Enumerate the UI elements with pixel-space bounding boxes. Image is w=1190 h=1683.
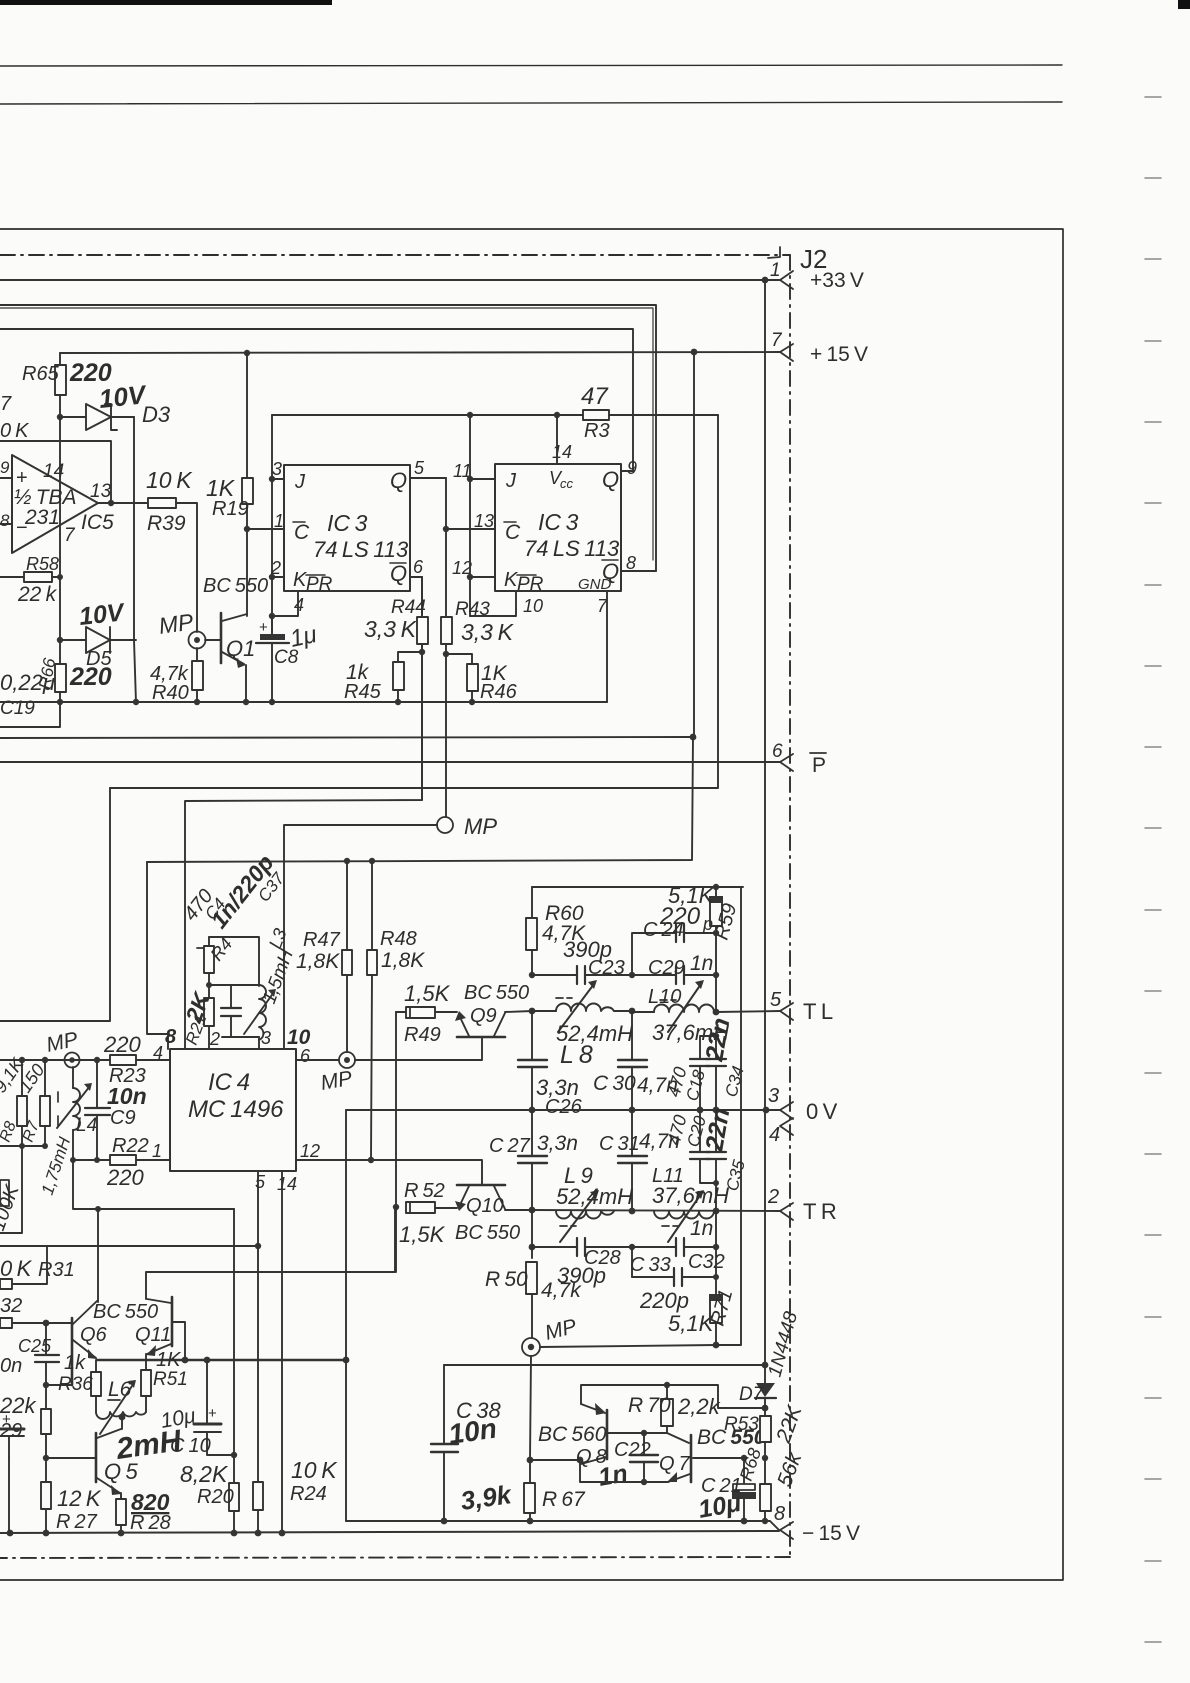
svg-text:R45: R45 <box>344 681 382 703</box>
node R48 junction y861 <box>369 858 375 864</box>
node R58 tee <box>57 574 63 580</box>
resistor R67 3,9k <box>529 1460 531 1483</box>
svg-text:Q1: Q1 <box>226 636 255 661</box>
pin 7 connector arrow <box>780 344 793 361</box>
svg-text:Q10: Q10 <box>466 1195 504 1217</box>
wire oscillator box y1021 <box>0 788 110 1021</box>
wire Q-bar bus to pin 8 of IC3b <box>0 305 656 571</box>
inductor L3 1,5mH <box>259 985 266 1040</box>
svg-text:37,6mH: 37,6mH <box>652 1183 729 1208</box>
resistor R29 22K <box>45 1385 47 1409</box>
svg-text:J: J <box>294 471 306 493</box>
svg-text:L 8: L 8 <box>560 1041 593 1069</box>
resistor R51 1k <box>145 1360 147 1370</box>
inductor L10 37,6mH <box>629 1008 636 1015</box>
pin 3 connector arrow <box>780 1102 793 1119</box>
resistor R68 56k <box>764 1458 766 1484</box>
node R47 junction y861 <box>344 858 350 864</box>
node rail junctions <box>57 699 63 705</box>
svg-text:5: 5 <box>414 458 425 478</box>
svg-text:12: 12 <box>300 1141 320 1161</box>
node D5 left <box>57 637 63 643</box>
resistor R24 10K <box>253 1482 263 1510</box>
svg-text:2: 2 <box>767 1186 779 1208</box>
svg-text:10 K: 10 K <box>146 467 193 493</box>
wire pin5 drop <box>257 1171 259 1482</box>
0V wire y1110 <box>346 1109 780 1111</box>
wire Q bus to pin 9 of IC3b <box>0 329 633 471</box>
wire x234 drop <box>233 1209 235 1455</box>
capacitor C23 390p <box>529 972 535 978</box>
svg-text:C 30: C 30 <box>593 1072 636 1095</box>
svg-text:D3: D3 <box>142 402 171 427</box>
pin 1 connector arrow <box>780 271 793 289</box>
resistor R60 4,7k <box>531 887 533 918</box>
svg-text:1n: 1n <box>690 952 713 975</box>
svg-text:10n: 10n <box>447 1413 499 1450</box>
resistor R66 220 <box>59 640 61 664</box>
resistor R23 220 <box>110 1055 136 1065</box>
svg-text:1,5K: 1,5K <box>404 981 451 1006</box>
svg-text:0 K: 0 K <box>0 420 30 442</box>
wire R65 to D3 <box>59 395 61 417</box>
transistor Q10 BC550 <box>457 1184 505 1187</box>
capacitor C28 390p <box>529 1244 536 1251</box>
resistor R19 1K <box>246 353 248 478</box>
outer schematic frame <box>0 229 1063 1580</box>
wire x692 drop to y860 <box>147 737 693 862</box>
resistor R43 3,3k <box>441 617 452 644</box>
svg-text:13: 13 <box>474 511 494 531</box>
svg-text:C22: C22 <box>614 1439 651 1461</box>
pot 100K <box>0 1146 22 1233</box>
node R4 bottom <box>206 982 212 988</box>
wire MP to x741 <box>540 1345 716 1347</box>
node C10 x234 junction <box>231 1452 237 1458</box>
node L6 centre tap <box>119 1414 126 1421</box>
svg-text:C26: C26 <box>545 1096 583 1118</box>
-15V upper wire <box>346 1521 779 1530</box>
wire pin12 y1160 <box>296 1160 482 1184</box>
svg-text:14: 14 <box>43 461 64 482</box>
svg-text:4: 4 <box>294 595 304 615</box>
resistor R47 1,8K <box>346 861 348 950</box>
svg-text:R3: R3 <box>584 420 610 442</box>
wire y1365 <box>444 1364 765 1366</box>
svg-text:100K: 100K <box>0 1181 24 1234</box>
svg-text:74 LS 113: 74 LS 113 <box>524 536 620 561</box>
svg-text:7: 7 <box>771 330 783 351</box>
svg-text:R36: R36 <box>58 1374 93 1395</box>
wire +33V vertical rail to D7 <box>764 280 766 1383</box>
svg-text:cc: cc <box>560 476 574 491</box>
svg-text:1,8K: 1,8K <box>296 950 340 973</box>
svg-text:5: 5 <box>255 1172 266 1192</box>
svg-text:6: 6 <box>300 1046 311 1066</box>
wire Q8 base net y1433 <box>641 1430 647 1436</box>
resistor R70 2,2k <box>666 1385 668 1399</box>
svg-text:2,2k: 2,2k <box>677 1394 721 1419</box>
wire +15V sub feed y860 <box>147 862 168 1049</box>
svg-text:2: 2 <box>270 558 281 578</box>
wire pin14 drop <box>281 1171 283 1533</box>
svg-text:3: 3 <box>768 1085 779 1107</box>
wire pin14 Vcc <box>556 415 558 464</box>
wire x60 D3 to D5 <box>59 417 61 640</box>
node Q7 base junctions <box>741 1455 747 1461</box>
wire pin8 Qbar <box>621 570 656 572</box>
svg-text:10μ: 10μ <box>696 1489 743 1524</box>
svg-text:Q: Q <box>602 467 619 492</box>
svg-text:C 10: C 10 <box>170 1435 211 1457</box>
wire pin5 Q <box>410 477 446 479</box>
svg-text:T L: T L <box>803 999 833 1024</box>
resistor R8 9,1K <box>17 1096 27 1126</box>
svg-text:9: 9 <box>627 458 637 478</box>
svg-text:14: 14 <box>277 1174 297 1194</box>
svg-text:R49: R49 <box>404 1024 441 1046</box>
capacitor C21 10u <box>743 1458 745 1484</box>
svg-text:Q9: Q9 <box>470 1005 497 1027</box>
svg-text:8: 8 <box>774 1503 785 1525</box>
wire op-amp -input <box>0 523 12 525</box>
node D3 left <box>57 414 63 420</box>
svg-text:3,3 K: 3,3 K <box>364 616 418 642</box>
svg-text:−: − <box>16 517 28 539</box>
right margin ticks <box>1145 97 1161 1642</box>
svg-text:R68: R68 <box>736 1446 765 1484</box>
svg-text:0 V: 0 V <box>806 1099 838 1124</box>
wire R39 to Q1 base line <box>176 503 197 632</box>
wire rail step to left edge <box>0 702 60 727</box>
svg-text:C29: C29 <box>648 957 685 979</box>
wire JK-PR supply net y415 <box>272 414 583 416</box>
wire Q-bar IC3a feed y801 <box>185 577 422 1049</box>
node Q6 base / C25 <box>43 1320 50 1327</box>
MP test point on Q feed <box>437 817 453 833</box>
transistor Q1 BC550 <box>205 639 221 641</box>
wire Q11 collector net y1272 <box>146 1207 395 1299</box>
wire pin12 <box>470 576 495 578</box>
wire D3-right drop to rail <box>134 640 136 703</box>
svg-text:BC 550: BC 550 <box>464 982 529 1004</box>
capacitor C32 1n <box>629 1244 635 1250</box>
svg-text:R43: R43 <box>455 599 490 620</box>
svg-text:1N4448: 1N4448 <box>765 1309 803 1379</box>
svg-text:1: 1 <box>274 511 284 531</box>
node y415 x470 <box>467 412 473 418</box>
svg-text:J: J <box>505 470 517 492</box>
svg-text:L3: L3 <box>265 926 291 952</box>
resistor R49 1,5k <box>396 1011 406 1013</box>
svg-text:C8: C8 <box>274 647 299 668</box>
pin 4 connector arrow <box>780 1118 793 1135</box>
wire pin1 <box>247 528 284 530</box>
resistor R58 22k <box>0 576 24 578</box>
svg-text:R20: R20 <box>197 1486 234 1508</box>
inductor L4 1,75mH <box>73 1088 80 1130</box>
MP test point bottom <box>522 1338 540 1356</box>
J2 pin bracket mark <box>768 247 780 258</box>
node Q6 collector junction <box>95 1206 101 1212</box>
svg-text:10: 10 <box>523 596 543 616</box>
capacitor C27 3,3n <box>531 1110 533 1156</box>
emitter rail y1360 <box>97 1359 346 1361</box>
svg-text:MP: MP <box>543 1315 579 1345</box>
svg-text:52,4mH: 52,4mH <box>556 1184 633 1209</box>
node pin13 junction <box>443 526 449 532</box>
svg-text:8: 8 <box>165 1026 177 1048</box>
node +15V junction R19 <box>244 350 250 356</box>
wire tank mid <box>209 984 259 986</box>
resistor R53 22K <box>764 1408 766 1416</box>
capacitor C31 4,7n <box>631 1110 633 1156</box>
svg-text:10 K: 10 K <box>291 1457 338 1483</box>
svg-text:Q: Q <box>390 561 407 586</box>
capacitor C18 470 <box>713 1033 719 1039</box>
wire TL to pin 5 <box>713 1009 720 1016</box>
wire x532 MP down to R67 <box>530 1356 531 1460</box>
resistor R36 1k <box>95 1360 97 1372</box>
svg-text:12 K: 12 K <box>57 1486 102 1511</box>
resistor R28 820 <box>120 1497 122 1499</box>
svg-text:Q11: Q11 <box>135 1324 171 1346</box>
svg-text:R 52: R 52 <box>404 1180 445 1202</box>
svg-text:PR: PR <box>306 574 333 595</box>
svg-text:R 50: R 50 <box>485 1268 528 1291</box>
capacitor C26 3,3n <box>531 1011 533 1060</box>
resistor R39 10K <box>148 498 176 508</box>
resistor R45 1k <box>398 652 422 662</box>
svg-text:Q 7: Q 7 <box>659 1453 691 1475</box>
svg-text:R 67: R 67 <box>542 1488 586 1511</box>
svg-text:R19: R19 <box>212 498 249 520</box>
svg-text:22 k: 22 k <box>17 583 58 606</box>
svg-text:+: + <box>2 1411 11 1428</box>
transistor Q5 <box>95 1433 98 1482</box>
node +15V junction x694 <box>691 349 698 356</box>
svg-text:L10: L10 <box>648 986 681 1008</box>
svg-text:R71: R71 <box>707 1287 738 1328</box>
resistor R52 1,5k <box>393 1204 399 1210</box>
svg-text:231: 231 <box>24 506 60 529</box>
svg-text:1: 1 <box>152 1141 162 1161</box>
top registration bar <box>0 0 332 5</box>
node y415 x557 <box>554 412 560 418</box>
svg-text:C32: C32 <box>688 1251 725 1273</box>
capacitor C35 22n <box>715 1110 717 1152</box>
svg-text:R40: R40 <box>152 682 189 704</box>
node junction x692 y737 <box>690 734 697 741</box>
svg-text:8,2K: 8,2K <box>180 1461 229 1487</box>
capacitor C22 1n <box>643 1433 645 1455</box>
svg-text:BC 550: BC 550 <box>455 1222 520 1244</box>
capacitor C4 <box>230 985 232 1008</box>
svg-text:BC 550: BC 550 <box>203 575 268 597</box>
svg-text:1,5mH: 1,5mH <box>259 947 298 1007</box>
svg-text:PR: PR <box>517 574 544 595</box>
svg-text:6: 6 <box>772 741 783 762</box>
wire P-bar bus <box>0 761 780 763</box>
inductor L9 52,4mH <box>556 1211 614 1219</box>
IC3 flip-flop A box <box>284 465 410 591</box>
wire left cap to rail <box>8 1458 10 1533</box>
pin 5 connector arrow <box>780 1003 793 1020</box>
svg-text:1n: 1n <box>596 1459 630 1492</box>
svg-text:+ 15 V: + 15 V <box>810 343 868 366</box>
svg-text:R65: R65 <box>22 363 60 385</box>
MP test point pin6 <box>339 1052 355 1068</box>
diode D7 1N4448 <box>756 1383 775 1397</box>
svg-text:L6: L6 <box>108 1378 132 1401</box>
wire R24 bottom stub <box>257 1510 259 1533</box>
capacitor C25 10n <box>45 1323 47 1355</box>
MP test point L4 <box>65 1053 80 1068</box>
-15V rail <box>0 1531 779 1533</box>
svg-text:R51: R51 <box>153 1369 188 1390</box>
svg-text:3,3 K: 3,3 K <box>461 619 515 645</box>
wire L4 bottom to y1209 <box>73 1160 234 1209</box>
wire 0V drop x346 <box>345 1110 347 1521</box>
svg-text:C34: C34 <box>722 1064 748 1099</box>
resistor R46 1k <box>446 654 472 664</box>
capacitor C24 220p <box>713 930 719 936</box>
resistor R4 <box>208 937 210 946</box>
op-amp feedback wire <box>0 441 111 503</box>
svg-text:3: 3 <box>272 459 282 479</box>
svg-text:MP: MP <box>464 814 497 839</box>
resistor R7 150 <box>40 1096 50 1126</box>
wire D3 <box>60 416 134 418</box>
svg-text:IC 3: IC 3 <box>327 510 368 536</box>
wire +15V drop x694 <box>693 352 695 737</box>
Q8 emitter net wire y1385 <box>581 1385 765 1408</box>
svg-text:4,7k: 4,7k <box>541 1279 582 1302</box>
svg-text:74 LS 113: 74 LS 113 <box>313 537 409 562</box>
wire R31 to pin5 y1246 <box>0 1245 258 1247</box>
transistor Q11 BC550 <box>171 1297 174 1346</box>
svg-text:Q 5: Q 5 <box>104 1459 139 1484</box>
node +33V junction <box>762 277 769 284</box>
wire pin13 IC3b <box>446 528 495 530</box>
svg-text:7: 7 <box>0 393 12 415</box>
svg-text:R58: R58 <box>26 554 59 574</box>
svg-text:R31: R31 <box>38 1259 75 1281</box>
wire pin6 y1060 to Q9 <box>296 1059 339 1061</box>
svg-text:MP: MP <box>319 1067 354 1095</box>
op-amp IC5 triangle 1/2 TBA231 <box>12 455 98 553</box>
svg-text:22n: 22n <box>700 1106 735 1154</box>
svg-text:T R: T R <box>803 1199 837 1224</box>
resistor R59 5,1k <box>715 887 717 898</box>
node pin12 R48 junction <box>368 1157 374 1163</box>
diode D5 10V <box>60 639 136 641</box>
svg-text:13: 13 <box>90 481 112 502</box>
svg-text:C 31: C 31 <box>599 1133 640 1155</box>
resistor R27 12K <box>45 1458 47 1482</box>
svg-text:1,8K: 1,8K <box>381 949 425 972</box>
wire R3 net y788 <box>110 415 718 788</box>
IC3 flip-flop B box <box>495 464 621 591</box>
svg-text:IC5: IC5 <box>81 511 114 534</box>
svg-text:Q: Q <box>390 468 407 493</box>
svg-text:MP: MP <box>157 608 195 639</box>
svg-text:R24: R24 <box>290 1483 327 1505</box>
resistor R3 47 <box>583 410 609 420</box>
capacitor C20 470 <box>699 1110 701 1152</box>
wire MP to R40 <box>196 648 198 661</box>
svg-text:C 24: C 24 <box>643 919 684 941</box>
svg-text:IC 4: IC 4 <box>208 1069 250 1096</box>
wire Q6 collector <box>97 1209 99 1302</box>
svg-text:220: 220 <box>106 1165 144 1190</box>
TR wire y1211 <box>529 1207 536 1214</box>
svg-text:R44: R44 <box>391 597 426 618</box>
svg-text:C9: C9 <box>110 1107 136 1129</box>
svg-text:220: 220 <box>69 663 112 691</box>
svg-text:D7: D7 <box>739 1384 765 1405</box>
wire pin6 to Q9 base <box>355 1038 482 1060</box>
pin 2 connector arrow <box>780 1203 793 1220</box>
wire pin6 Qbar <box>410 576 422 578</box>
wire R49-R52 link x396 <box>395 1012 397 1207</box>
wire pin7 GND <box>606 591 608 702</box>
wire x470 JK tie <box>469 415 471 616</box>
svg-text:22K: 22K <box>772 1402 807 1447</box>
wire pin2 <box>272 576 284 578</box>
horizontal rule 2 <box>0 102 1062 104</box>
svg-text:R 28: R 28 <box>130 1512 171 1534</box>
svg-text:1K: 1K <box>156 1349 182 1371</box>
wire +33V bus <box>0 279 765 281</box>
capacitor C30 4,7n <box>631 1012 633 1060</box>
resistor R48 1,8K <box>371 861 373 950</box>
svg-text:1: 1 <box>770 260 781 281</box>
diode D3 zener 10V <box>86 404 111 430</box>
wire x716 down to R71 <box>715 1211 717 1296</box>
TL filter top wire y887 <box>532 886 743 888</box>
horizontal rule 1 <box>0 65 1062 66</box>
MP test point Q1 <box>189 632 206 649</box>
wire pin11 <box>470 478 495 480</box>
svg-text:2: 2 <box>209 1029 220 1049</box>
svg-text:0 K: 0 K <box>0 1256 33 1281</box>
capacitor C10 10u <box>206 1360 208 1424</box>
svg-text:Q6: Q6 <box>80 1324 108 1346</box>
ground rail y702 <box>0 701 607 703</box>
resistor R44 3,3k <box>421 577 423 617</box>
resistor R22 220 <box>110 1155 136 1165</box>
inductor L8 52,4mH <box>529 1008 536 1015</box>
svg-text:R48: R48 <box>380 928 417 950</box>
resistor R21 2K <box>204 998 214 1026</box>
wire pin1 y1160 <box>72 1159 110 1161</box>
capacitor C34 22n <box>715 1036 717 1059</box>
svg-text:14: 14 <box>552 442 572 462</box>
pin 6 connector arrow <box>780 754 793 771</box>
svg-text:BC 560: BC 560 <box>538 1423 607 1446</box>
wire R65 top <box>59 353 61 365</box>
wire pin4 PR <box>272 591 298 616</box>
svg-text:IC 3: IC 3 <box>538 509 579 535</box>
svg-text:10V: 10V <box>78 598 127 631</box>
resistor R20 8,2K <box>233 1455 235 1483</box>
left input network: wire pin4 y1060 <box>0 1059 110 1061</box>
svg-text:9: 9 <box>0 458 10 477</box>
svg-text:C: C <box>294 521 310 544</box>
svg-text:1k: 1k <box>64 1352 86 1374</box>
svg-text:220p: 220p <box>639 1288 689 1313</box>
